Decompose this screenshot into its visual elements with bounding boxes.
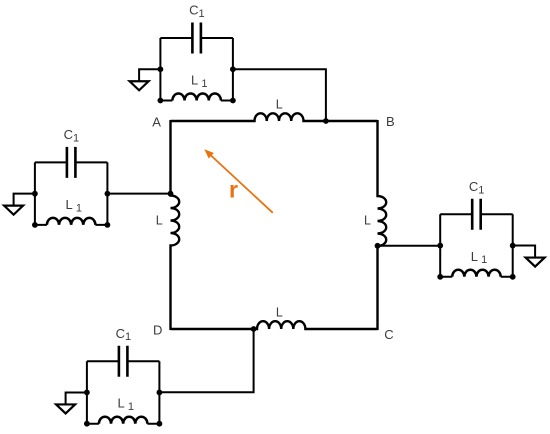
svg-text:L: L xyxy=(276,98,283,112)
svg-text:A: A xyxy=(152,115,161,130)
svg-text:r: r xyxy=(229,177,238,203)
svg-text:C: C xyxy=(384,327,393,342)
svg-text:C1: C1 xyxy=(469,179,485,196)
svg-text:B: B xyxy=(386,114,395,129)
svg-text:L: L xyxy=(364,214,371,228)
svg-text:L 1: L 1 xyxy=(66,197,82,214)
svg-text:L: L xyxy=(156,214,163,228)
svg-text:L: L xyxy=(276,306,283,320)
svg-text:L 1: L 1 xyxy=(471,249,487,266)
svg-text:D: D xyxy=(153,322,162,337)
svg-text:L 1: L 1 xyxy=(118,396,134,413)
svg-text:C1: C1 xyxy=(64,127,80,144)
svg-text:L 1: L 1 xyxy=(191,73,207,90)
svg-text:C1: C1 xyxy=(189,3,205,20)
svg-text:C1: C1 xyxy=(116,326,132,343)
